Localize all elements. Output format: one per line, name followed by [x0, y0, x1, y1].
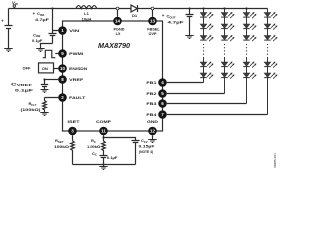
svg-text:11: 11	[101, 129, 106, 134]
wire CIN2 branch	[53, 9, 59, 31]
svg-text:14: 14	[115, 19, 121, 24]
wire VIN rail	[9, 7, 77, 25]
svg-text:0.1µF: 0.1µF	[32, 38, 43, 43]
node junction COMP	[102, 136, 104, 138]
LED string 2	[221, 7, 234, 93]
pin 13 (OVP)	[148, 17, 157, 26]
wire FB2	[167, 93, 225, 95]
pin 14 (LX)	[113, 17, 122, 26]
capacitor CVREF	[41, 80, 48, 90]
ground (RFLT)	[40, 113, 48, 116]
svg-text:12: 12	[150, 129, 156, 134]
node VIN terminal	[13, 5, 15, 7]
wire ISET pin down	[72, 135, 74, 141]
wire LX pin to rail	[117, 9, 119, 17]
pin 9 (PWMI)	[58, 49, 67, 58]
svg-text:0.15µF: 0.15µF	[139, 144, 156, 149]
svg-text:0.1µF: 0.1µF	[107, 155, 118, 160]
PWM waveform icon	[43, 50, 56, 57]
wire COMP pin down	[103, 135, 105, 137]
node junction bus	[102, 163, 104, 165]
node junction COUT	[188, 7, 190, 9]
svg-text:10µH: 10µH	[82, 17, 92, 22]
ground (comp bus)	[99, 165, 107, 170]
wire output rail	[138, 8, 268, 10]
svg-text:0.1µF: 0.1µF	[15, 87, 34, 92]
svg-text:FB3: FB3	[146, 101, 157, 106]
pin 5 (FB2)	[158, 89, 167, 98]
svg-text:VREF: VREF	[69, 77, 84, 82]
resistor RFLT	[43, 101, 47, 113]
node junction CIN2	[51, 7, 53, 9]
svg-text:COUT: COUT	[167, 14, 176, 20]
svg-text:OVP: OVP	[148, 32, 156, 36]
wire CIN2 to ground	[41, 44, 53, 49]
svg-text:OFF: OFF	[23, 65, 32, 70]
svg-text:13: 13	[150, 19, 156, 24]
pin 12 (GND)	[148, 127, 157, 136]
svg-text:D1: D1	[132, 13, 138, 18]
svg-text:VIN: VIN	[69, 28, 79, 33]
svg-text:100kΩ: 100kΩ	[54, 144, 70, 149]
wire comp ground bus	[73, 164, 136, 166]
svg-text:1.00kΩ: 1.00kΩ	[87, 144, 101, 149]
svg-text:LX: LX	[116, 32, 121, 36]
ground (CVREF)	[41, 90, 49, 93]
svg-text:4.7µF: 4.7µF	[35, 17, 50, 22]
pin 10 (EN)	[58, 64, 67, 73]
pin 1 (VIN)	[58, 26, 67, 35]
svg-text:VIN: VIN	[12, 0, 19, 6]
svg-text:FAULT: FAULT	[69, 95, 86, 100]
pin 11 (COMP)	[99, 127, 108, 136]
wire FB4	[167, 114, 268, 116]
svg-text:FB1: FB1	[146, 80, 157, 85]
wire PWMI	[55, 53, 58, 55]
node junction VREF cap	[43, 78, 45, 80]
pin 6 (FB3)	[158, 99, 167, 108]
svg-text:EN/SDN: EN/SDN	[69, 66, 87, 71]
svg-text:L1: L1	[84, 11, 89, 16]
switch box ON/OFF	[39, 63, 54, 73]
wire OVP pin to rail	[152, 9, 154, 17]
svg-text:MAX8790: MAX8790	[98, 43, 130, 50]
wire EN	[54, 68, 59, 70]
LED string 1	[200, 7, 213, 82]
ground (GND pin)	[148, 140, 156, 143]
capacitor CIN2	[49, 31, 57, 44]
svg-text:4.7µF: 4.7µF	[168, 20, 185, 25]
wire SW rail	[97, 8, 131, 10]
pin 4 (FB1)	[158, 78, 167, 87]
capacitor CIN1 (input, polarized)	[5, 26, 13, 49]
LED string 3	[243, 7, 256, 103]
ground (input cap)	[4, 49, 12, 52]
ground (CIN2)	[36, 49, 44, 52]
svg-text:(NOTE 4): (NOTE 4)	[139, 150, 153, 154]
svg-text:ISET: ISET	[68, 119, 81, 124]
wire FB1	[167, 82, 204, 84]
wire FB3	[167, 103, 247, 105]
wire FAULT	[45, 98, 59, 101]
node junction LX (open)	[116, 7, 119, 10]
svg-text:RFLT: RFLT	[29, 101, 37, 107]
svg-text:PWMI: PWMI	[69, 51, 83, 56]
wire GND pin down	[152, 135, 154, 139]
capacitor COUT	[186, 9, 194, 36]
ground (COUT)	[185, 36, 193, 39]
diode D1	[131, 5, 138, 12]
resistor RSET	[71, 141, 75, 165]
svg-text:GND: GND	[147, 119, 158, 124]
svg-text:COMP: COMP	[96, 119, 111, 124]
LED string 4	[264, 9, 277, 115]
pin 7 (FB4)	[158, 110, 167, 119]
capacitor CC	[100, 153, 108, 165]
pin 8 (VREF)	[58, 75, 67, 84]
svg-text:FB4: FB4	[146, 112, 157, 117]
svg-text:+: +	[1, 19, 4, 24]
wire CC2 branch	[104, 138, 136, 141]
svg-text:06885-001: 06885-001	[273, 153, 277, 168]
wire VREF	[45, 79, 59, 81]
IC MAX8790 body	[63, 21, 163, 131]
pin 2 (FAULT)	[58, 93, 67, 102]
svg-text:ON: ON	[42, 66, 48, 71]
svg-text:RSET: RSET	[55, 138, 64, 144]
svg-text:CIN1: CIN1	[37, 11, 45, 17]
svg-text:CVREF: CVREF	[11, 81, 32, 87]
svg-text:(100kΩ): (100kΩ)	[21, 107, 42, 112]
pin 3 (ISET)	[68, 127, 77, 136]
svg-text:+: +	[162, 13, 165, 18]
svg-text:10: 10	[60, 66, 66, 71]
resistor RC	[102, 138, 106, 153]
capacitor CC2	[132, 141, 140, 165]
svg-text:FB2: FB2	[146, 91, 157, 96]
inductor L1	[76, 6, 97, 9]
node junction OVP (open)	[151, 7, 154, 10]
